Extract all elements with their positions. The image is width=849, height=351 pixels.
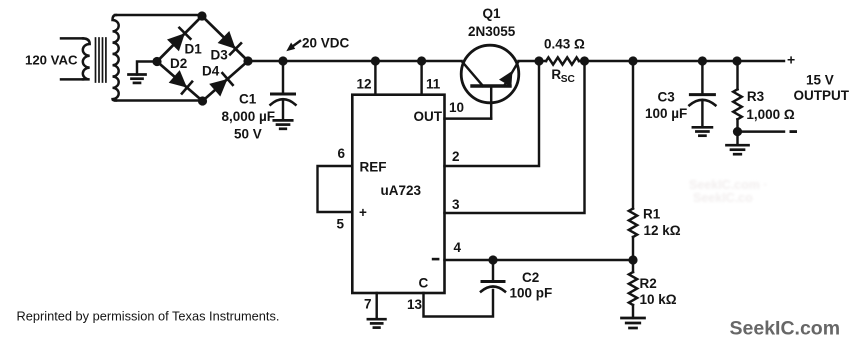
svg-text:1,000 Ω: 1,000 Ω bbox=[746, 107, 795, 122]
svg-text:13: 13 bbox=[407, 297, 423, 312]
svg-text:2N3055: 2N3055 bbox=[468, 24, 516, 39]
svg-text:50 V: 50 V bbox=[234, 127, 262, 142]
svg-text:0.43 Ω: 0.43 Ω bbox=[544, 37, 585, 52]
svg-text:R2: R2 bbox=[640, 276, 657, 291]
svg-text:11: 11 bbox=[426, 77, 441, 92]
svg-text:OUT: OUT bbox=[414, 109, 443, 124]
svg-text:D4: D4 bbox=[202, 64, 220, 79]
svg-text:12 kΩ: 12 kΩ bbox=[644, 223, 681, 238]
svg-text:20 VDC: 20 VDC bbox=[302, 36, 350, 51]
svg-text:120 VAC: 120 VAC bbox=[25, 53, 78, 68]
svg-text:OUTPUT: OUTPUT bbox=[794, 88, 849, 103]
svg-text:+: + bbox=[787, 52, 795, 68]
svg-text:D1: D1 bbox=[185, 42, 203, 57]
svg-text:100 µF: 100 µF bbox=[645, 106, 687, 121]
svg-text:7: 7 bbox=[364, 297, 372, 312]
svg-text:15 V: 15 V bbox=[806, 73, 834, 88]
svg-text:SeekIC.com ·: SeekIC.com · bbox=[689, 178, 768, 192]
svg-text:C1: C1 bbox=[239, 92, 257, 107]
svg-text:6: 6 bbox=[338, 146, 346, 161]
svg-text:+: + bbox=[359, 205, 367, 220]
svg-text:C2: C2 bbox=[522, 270, 539, 285]
svg-text:Reprinted by permission of Tex: Reprinted by permission of Texas Instrum… bbox=[17, 309, 280, 324]
svg-text:8,000 µF: 8,000 µF bbox=[222, 109, 276, 124]
svg-text:SeekIC.com: SeekIC.com bbox=[730, 318, 841, 340]
svg-text:D2: D2 bbox=[170, 56, 187, 71]
svg-text:C3: C3 bbox=[658, 90, 676, 105]
svg-text:SC: SC bbox=[561, 74, 576, 85]
svg-text:C: C bbox=[419, 276, 429, 291]
svg-text:SeekIC.co: SeekIC.co bbox=[693, 191, 753, 205]
svg-text:12: 12 bbox=[357, 77, 372, 92]
svg-text:100 pF: 100 pF bbox=[510, 286, 553, 301]
svg-text:uA723: uA723 bbox=[381, 183, 422, 198]
svg-text:3: 3 bbox=[452, 197, 460, 212]
svg-text:REF: REF bbox=[360, 160, 387, 175]
svg-text:R3: R3 bbox=[747, 89, 765, 104]
svg-text:D3: D3 bbox=[211, 48, 229, 63]
svg-text:2: 2 bbox=[452, 149, 460, 164]
svg-text:R1: R1 bbox=[643, 207, 661, 222]
svg-text:10 kΩ: 10 kΩ bbox=[640, 292, 677, 307]
svg-text:Q1: Q1 bbox=[483, 6, 502, 21]
svg-text:5: 5 bbox=[337, 217, 345, 232]
svg-text:10: 10 bbox=[449, 100, 464, 115]
svg-text:4: 4 bbox=[454, 240, 462, 255]
